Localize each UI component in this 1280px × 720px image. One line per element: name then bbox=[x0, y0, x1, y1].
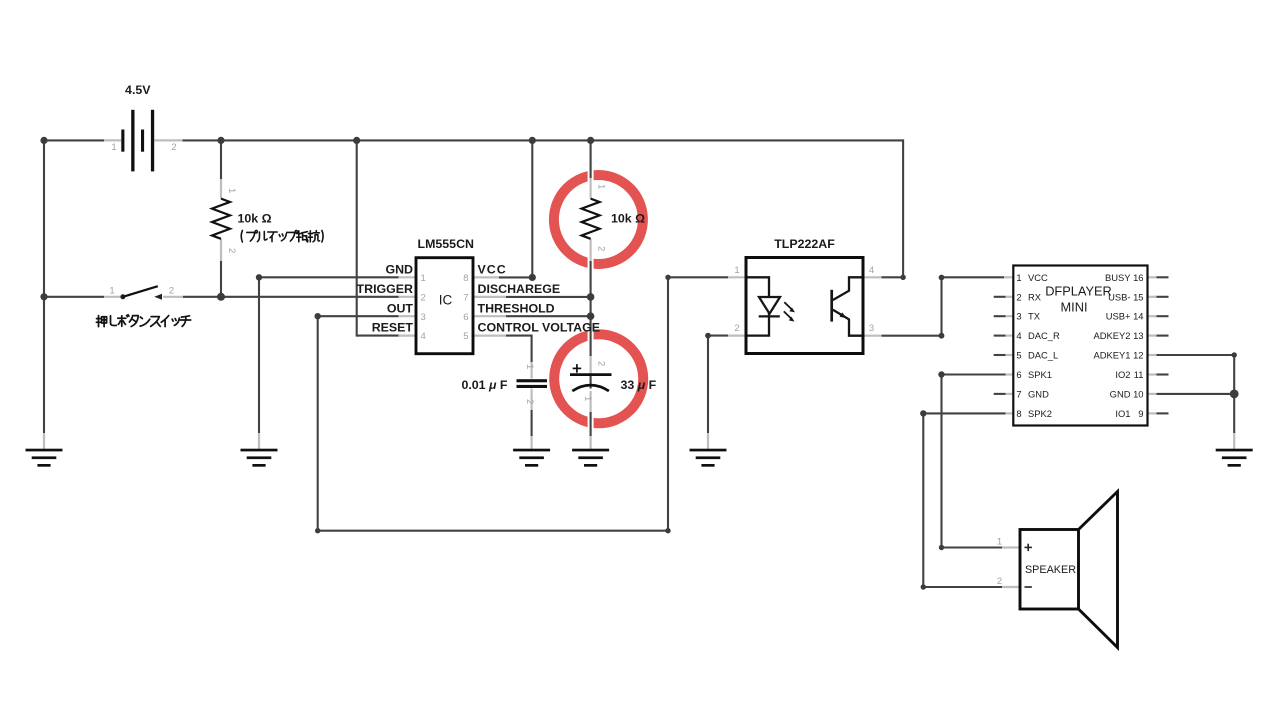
svg-text:0.01 μ F: 0.01 μ F bbox=[461, 378, 507, 392]
wire DF GND riser to ground bbox=[1233, 394, 1235, 433]
wire 555 VCC pin stub bbox=[473, 276, 499, 278]
U2 light arrow 1 bbox=[784, 302, 795, 312]
svg-text:2: 2 bbox=[734, 323, 739, 334]
wire TLP ground stub bbox=[707, 433, 709, 449]
svg-text:IC: IC bbox=[439, 293, 453, 308]
svg-text:3: 3 bbox=[869, 323, 874, 334]
wire THRESHOLD to R2 branch bbox=[506, 315, 591, 317]
node top-left bbox=[40, 137, 47, 144]
ground 2 (555 GND) bbox=[241, 449, 278, 467]
wire TLP pin2 lead bbox=[708, 335, 728, 337]
svg-text:DFPLAYER: DFPLAYER bbox=[1045, 283, 1112, 298]
svg-text:BUSY: BUSY bbox=[1105, 272, 1131, 283]
svg-text:SPK2: SPK2 bbox=[1028, 408, 1052, 419]
wire DF GND pin10 bbox=[1148, 393, 1157, 395]
svg-text:2: 2 bbox=[421, 292, 426, 303]
wire TLP pin3 stub bbox=[863, 335, 882, 337]
wire R1 bottom lead bbox=[220, 261, 222, 297]
wire TLP pin4 lead bbox=[882, 276, 904, 278]
node speaker pin1 corner bbox=[939, 545, 944, 550]
U2 internal LED wiring bbox=[748, 277, 770, 335]
node DISCHAREGE junction bbox=[587, 293, 595, 301]
wire left column bbox=[43, 140, 45, 296]
wire 555 TRIGGER pin stub bbox=[399, 296, 417, 298]
svg-text:4: 4 bbox=[869, 265, 874, 276]
svg-text:7: 7 bbox=[463, 292, 468, 303]
wire RESET to riser bbox=[357, 335, 399, 337]
node SPK2 junction bbox=[920, 410, 926, 416]
svg-text:2: 2 bbox=[997, 576, 1002, 587]
wire to DFPLAYER VCC bbox=[942, 276, 1005, 278]
svg-text:MINI: MINI bbox=[1060, 300, 1087, 315]
wire OUT to left bbox=[318, 315, 399, 317]
svg-text:1: 1 bbox=[734, 265, 739, 276]
svg-text:USB-: USB- bbox=[1108, 291, 1130, 302]
node TLP pin2 corner bbox=[705, 333, 711, 339]
node OUT corner bbox=[315, 313, 321, 319]
wire DF pin4 open stub bbox=[994, 335, 1006, 337]
speaker LS1 horn bbox=[1079, 492, 1118, 648]
node DF VCC corner top bbox=[939, 275, 945, 281]
svg-text:8: 8 bbox=[463, 273, 468, 284]
node OUT rail right corner bbox=[665, 528, 670, 533]
svg-text:2: 2 bbox=[1016, 291, 1021, 302]
wire TLP pin3 lead bbox=[882, 335, 942, 337]
node VCC riser junction bbox=[529, 137, 536, 144]
wire C1 pin2 stub bbox=[530, 389, 532, 411]
svg-text:SPK1: SPK1 bbox=[1028, 369, 1052, 380]
U2 LED triangle bbox=[759, 297, 780, 314]
wire GND corner down bbox=[258, 277, 260, 433]
svg-text:1: 1 bbox=[997, 537, 1002, 548]
wire TLP pin4 stub bbox=[863, 276, 882, 278]
wire R2 branch top lead bbox=[590, 140, 592, 178]
svg-text:1: 1 bbox=[421, 273, 426, 284]
svg-text:RESET: RESET bbox=[372, 321, 414, 335]
wire TLP pin2 down bbox=[707, 336, 709, 433]
node SPK1 junction bbox=[938, 371, 944, 377]
svg-text:TLP222AF: TLP222AF bbox=[774, 237, 835, 251]
optocoupler U2 TLP222AF body bbox=[746, 258, 863, 354]
op-amp U1 LM555CN body bbox=[416, 258, 473, 354]
wire 555 DISCHAREGE pin stub bbox=[473, 296, 506, 298]
speaker minus terminal mark bbox=[1025, 586, 1032, 588]
svg-text:4: 4 bbox=[1016, 330, 1021, 341]
wire C2 bottom white casing bbox=[588, 414, 594, 431]
U3 right pin numbers bbox=[1133, 272, 1143, 419]
wire DF SPK1 lead bbox=[942, 373, 1006, 375]
label （プルアップ抵抗） (drawn glyphs) bbox=[241, 231, 323, 243]
switch S1 push button bbox=[120, 286, 162, 300]
battery BT1 4.5V bbox=[121, 110, 154, 172]
wire OUT bottom rail bbox=[318, 530, 668, 532]
svg-text:GND: GND bbox=[385, 262, 413, 276]
svg-text:1: 1 bbox=[109, 286, 114, 297]
module U3 DFPLAYER MINI body bbox=[1013, 266, 1147, 426]
svg-text:CONTROL VOLTAGE: CONTROL VOLTAGE bbox=[478, 321, 601, 335]
svg-text:2: 2 bbox=[596, 361, 607, 366]
wire DF pin13 open stub bbox=[1148, 335, 1157, 337]
node switch-left junction bbox=[40, 293, 47, 300]
svg-text:DAC_L: DAC_L bbox=[1028, 350, 1058, 361]
svg-text:33 μ F: 33 μ F bbox=[621, 378, 657, 392]
svg-text:4.5V: 4.5V bbox=[125, 83, 151, 97]
svg-text:4: 4 bbox=[421, 331, 426, 342]
wire GND ground stub bbox=[258, 433, 260, 449]
svg-text:6: 6 bbox=[463, 312, 468, 323]
node TLP pin4 corner bbox=[900, 275, 905, 280]
svg-text:1: 1 bbox=[582, 396, 593, 401]
svg-text:7: 7 bbox=[1016, 388, 1021, 399]
speaker plus terminal mark bbox=[1025, 544, 1032, 551]
wire R2 bottom lead bbox=[590, 261, 592, 316]
svg-text:3: 3 bbox=[1016, 311, 1021, 322]
wire speaker pin2 lead bbox=[923, 586, 1002, 588]
svg-text:1: 1 bbox=[111, 142, 116, 153]
svg-text:1: 1 bbox=[524, 364, 535, 369]
wire TLP pin4 riser bbox=[902, 139, 904, 277]
wire R1 pin2 stub bbox=[220, 239, 222, 261]
svg-text:DAC_R: DAC_R bbox=[1028, 330, 1060, 341]
svg-text:16: 16 bbox=[1133, 272, 1143, 283]
svg-text:VCC: VCC bbox=[478, 262, 507, 276]
wire DF pin5 open stub bbox=[994, 354, 1006, 356]
node OUT rail left corner bbox=[315, 528, 320, 533]
wire DF pin11 open stub bbox=[1148, 373, 1157, 375]
svg-text:2: 2 bbox=[169, 286, 174, 297]
wire C2 center link bbox=[590, 375, 592, 389]
capacitor C1 0.01uF bbox=[517, 379, 548, 388]
wire battery pin2 stub bbox=[155, 139, 183, 141]
wire CV to corner bbox=[506, 335, 532, 337]
node battery/R1 junction bbox=[217, 137, 224, 144]
node TLP pin1 corner bbox=[665, 275, 670, 280]
wire VCC riser up bbox=[531, 139, 533, 277]
svg-text:2: 2 bbox=[171, 142, 176, 153]
wire DF pin14 open stub bbox=[1148, 315, 1157, 317]
ground 6 (DFPLAYER GND) bbox=[1216, 449, 1253, 467]
svg-text:RX: RX bbox=[1028, 291, 1042, 302]
wire 555 OUT pin stub bbox=[399, 315, 417, 317]
wire C2 to ground bbox=[590, 412, 592, 436]
wire to TLP pin1 bbox=[668, 276, 728, 278]
wire switch pin2 stub bbox=[163, 296, 183, 298]
wire TLP pin2 stub bbox=[728, 335, 746, 337]
wire TLP pin1 stub bbox=[728, 276, 746, 278]
speaker LS1 body bbox=[1020, 530, 1079, 610]
svg-text:9: 9 bbox=[1138, 408, 1143, 419]
wire DF pin7 open stub bbox=[994, 393, 1006, 395]
wire C2 ground stub bbox=[589, 436, 591, 449]
capacitor C2 33uF electrolytic bbox=[570, 364, 612, 391]
wire ADKEY1 riser down bbox=[1233, 355, 1235, 394]
svg-text:DISCHAREGE: DISCHAREGE bbox=[478, 282, 561, 296]
wire VCC to corner bbox=[499, 276, 532, 278]
wire SPK1 riser down bbox=[940, 375, 942, 548]
wire 555 CONTROL VOLTAGE pin stub bbox=[473, 335, 506, 337]
svg-text:2: 2 bbox=[524, 399, 535, 404]
wire C2 pin stub top bbox=[589, 356, 591, 374]
wire THRESHOLD node to C2 bbox=[590, 316, 592, 356]
node THRESHOLD junction bbox=[587, 312, 595, 320]
ground 3 (C1) bbox=[513, 449, 550, 467]
wire riser to TLP pin1 bbox=[667, 277, 669, 530]
wire C2 top white casing bbox=[588, 326, 594, 344]
node RESET riser junction bbox=[353, 137, 360, 144]
wire DF pin15 open stub bbox=[1148, 296, 1157, 298]
svg-text:6: 6 bbox=[1016, 369, 1021, 380]
svg-text:1: 1 bbox=[1016, 272, 1021, 283]
svg-text:15: 15 bbox=[1133, 291, 1143, 302]
svg-text:10k Ω: 10k Ω bbox=[611, 212, 645, 226]
svg-text:1: 1 bbox=[596, 184, 607, 189]
wire DF pin2 open stub bbox=[994, 296, 1006, 298]
U2 light arrow 2 bbox=[784, 311, 795, 321]
wire left column to ground bbox=[43, 297, 45, 433]
wire switch to TRIGGER bbox=[183, 296, 399, 298]
wire switch left lead bbox=[44, 296, 104, 298]
wire R2 bottom white casing bbox=[588, 254, 594, 272]
svg-text:USB+: USB+ bbox=[1106, 311, 1131, 322]
wire top rail right segment bbox=[183, 139, 904, 141]
wire C1 ground stub bbox=[530, 436, 532, 449]
wire DF pin16 open stub bbox=[1148, 276, 1157, 278]
wire DF pin9 open stub bbox=[1148, 412, 1157, 414]
wire R2 pin1 stub bbox=[589, 178, 591, 199]
U3 left pin labels bbox=[1028, 272, 1060, 419]
svg-text:5: 5 bbox=[1016, 350, 1021, 361]
svg-text:TX: TX bbox=[1028, 311, 1041, 322]
svg-text:VCC: VCC bbox=[1028, 272, 1048, 283]
svg-text:2: 2 bbox=[596, 246, 607, 251]
svg-text:12: 12 bbox=[1133, 350, 1143, 361]
svg-text:11: 11 bbox=[1134, 369, 1144, 380]
node R2 branch top junction bbox=[587, 137, 594, 144]
svg-text:THRESHOLD: THRESHOLD bbox=[478, 301, 555, 315]
svg-text:14: 14 bbox=[1133, 311, 1143, 322]
wire 555 RESET pin stub bbox=[399, 335, 417, 337]
svg-text:ADKEY2: ADKEY2 bbox=[1094, 330, 1131, 341]
ground 5 (TLP pin2) bbox=[690, 449, 727, 467]
node ADKEY1 corner bbox=[1232, 352, 1237, 357]
U3 right pin labels bbox=[1094, 272, 1132, 419]
wire DF pin1 stub bbox=[1004, 276, 1013, 278]
wire DF ADKEY1 pin12 bbox=[1148, 354, 1157, 356]
svg-text:8: 8 bbox=[1016, 408, 1021, 419]
svg-text:2: 2 bbox=[226, 248, 237, 253]
U3 left pin numbers bbox=[1016, 272, 1021, 419]
wire R1 pin1 stub bbox=[220, 179, 222, 199]
wire speaker pin1 lead bbox=[942, 546, 1003, 548]
U2 LED cathode bar bbox=[759, 315, 780, 317]
svg-text:ADKEY1: ADKEY1 bbox=[1094, 350, 1131, 361]
wire C2 pin stub bottom bbox=[589, 391, 591, 412]
node DF GND junction bbox=[1230, 390, 1239, 399]
resistor R2 10k (circled) bbox=[582, 199, 600, 239]
wire RESET riser to top rail bbox=[356, 139, 358, 336]
node switch/R1/TRIGGER junction bbox=[217, 293, 225, 301]
ground 4 (C2) bbox=[572, 449, 609, 467]
wire switch pin1 stub bbox=[104, 296, 121, 298]
wire C1 to ground bbox=[531, 410, 533, 436]
svg-text:10: 10 bbox=[1133, 388, 1143, 399]
svg-text:IO2: IO2 bbox=[1115, 369, 1130, 380]
wire 555 THRESHOLD pin stub bbox=[473, 315, 506, 317]
label 押しボタンスイッチ (drawn glyphs) bbox=[96, 315, 190, 327]
wire R2 branch top white casing bbox=[588, 166, 594, 185]
node VCC corner bbox=[529, 274, 536, 281]
svg-text:LM555CN: LM555CN bbox=[418, 237, 475, 251]
svg-text:1: 1 bbox=[226, 188, 237, 193]
svg-text:IO1: IO1 bbox=[1115, 408, 1130, 419]
svg-text:TRIGGER: TRIGGER bbox=[357, 282, 413, 296]
wire R2 pin2 stub bbox=[589, 239, 591, 261]
svg-text:GND: GND bbox=[1028, 388, 1049, 399]
wire 555 GND pin stub bbox=[399, 276, 417, 278]
wire 555 GND to left corner bbox=[259, 276, 399, 278]
svg-text:3: 3 bbox=[421, 312, 426, 323]
node GND corner bbox=[256, 274, 262, 280]
wire CV corner down bbox=[531, 335, 533, 362]
wire R1 top lead bbox=[220, 140, 222, 179]
wire DF SPK2 lead bbox=[923, 412, 1005, 414]
wire TLP3 riser up bbox=[940, 278, 942, 336]
node speaker pin2 corner bbox=[921, 584, 926, 589]
resistor R1 10k pull-up bbox=[212, 199, 230, 239]
wire OUT riser down bbox=[317, 316, 319, 531]
wire SPK2 riser down bbox=[922, 413, 924, 587]
svg-text:13: 13 bbox=[1133, 330, 1143, 341]
wire left ground stub bbox=[43, 433, 45, 449]
wire DF pin3 open stub bbox=[994, 315, 1006, 317]
svg-text:5: 5 bbox=[463, 331, 468, 342]
wire top rail left segment bbox=[43, 139, 104, 141]
svg-text:10k Ω: 10k Ω bbox=[238, 212, 272, 226]
red annotation circle around R2 bbox=[554, 175, 643, 264]
svg-text:GND: GND bbox=[1110, 388, 1131, 399]
wire DISCHAREGE to R2 branch bbox=[506, 296, 591, 298]
svg-text:OUT: OUT bbox=[387, 301, 414, 315]
U2 phototransistor Q bbox=[832, 277, 862, 335]
wire battery pin1 stub bbox=[104, 139, 121, 141]
svg-text:SPEAKER: SPEAKER bbox=[1025, 564, 1076, 576]
red annotation circle around C2 bbox=[554, 334, 643, 423]
ground 1 (left column) bbox=[26, 449, 63, 467]
wire C1 pin1 stub bbox=[530, 362, 532, 379]
node DF VCC corner bottom bbox=[939, 333, 945, 339]
